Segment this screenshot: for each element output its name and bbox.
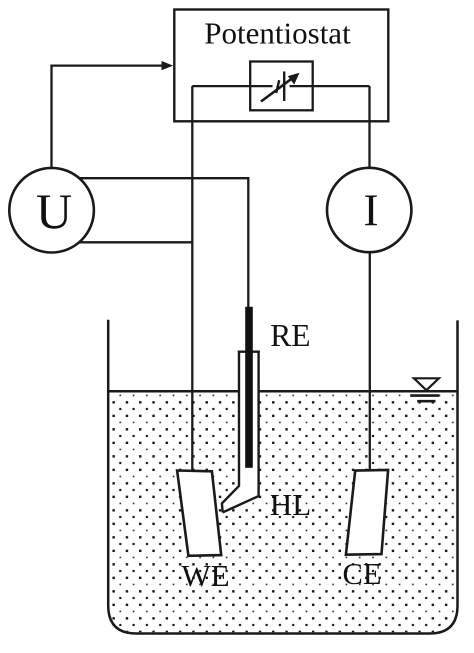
water level symbol — [410, 378, 439, 401]
svg-text:HL: HL — [270, 487, 311, 522]
svg-text:WE: WE — [181, 558, 229, 593]
HL capillary tube (Haber-Luggin) white interior — [222, 351, 259, 513]
svg-text:CE: CE — [343, 557, 382, 591]
wire: ammeter I to CE (vertical) — [369, 252, 371, 470]
potentiostat box — [174, 10, 388, 122]
HL capillary right wall — [223, 351, 259, 513]
water surface line — [108, 390, 457, 393]
voltmeter U — [9, 168, 94, 253]
adjustable source plates — [276, 72, 284, 102]
adjustable-source diagonal arrow — [261, 73, 300, 102]
wire: U to RE (upper right of voltmeter) — [79, 178, 248, 307]
svg-text:RE: RE — [270, 318, 310, 353]
svg-text:U: U — [36, 183, 72, 239]
beaker (cell vessel) — [108, 320, 457, 634]
svg-text:I: I — [364, 185, 379, 235]
HL capillary left wall — [222, 351, 239, 513]
wire: U top to potentiostat input (with arrow) — [52, 61, 174, 168]
working electrode WE plate — [177, 471, 221, 556]
HL capillary top rim — [238, 351, 260, 353]
svg-text:Potentiostat: Potentiostat — [204, 16, 351, 51]
adjustable source symbol box U2 — [250, 62, 313, 111]
electrolyte fill (dotted liquid) — [109, 392, 456, 632]
wire: potentiostat to ammeter I (vertical) — [368, 86, 370, 168]
reference electrode RE rod — [245, 307, 253, 468]
wire: potentiostat to WE (vertical) — [191, 86, 193, 471]
wire: setpoint net (horizontal inside potentiostat, left segment) — [192, 85, 272, 87]
counter electrode CE plate — [346, 470, 388, 555]
wire: setpoint net (horizontal inside potentiostat, right segment) — [290, 85, 370, 87]
wire: U to WE net (lower right of voltmeter) — [79, 241, 192, 243]
ammeter I — [327, 168, 411, 252]
